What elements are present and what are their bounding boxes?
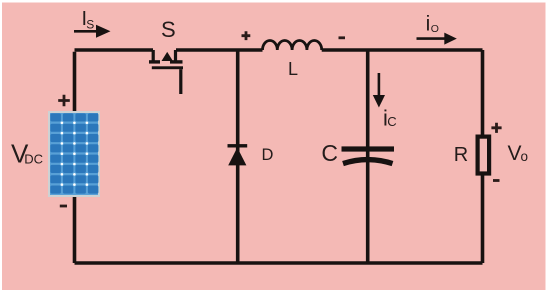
svg-text:O: O	[431, 23, 439, 35]
svg-text:C: C	[387, 114, 396, 129]
svg-text:C: C	[321, 140, 338, 166]
svg-text:DC: DC	[24, 152, 43, 167]
svg-text:L: L	[288, 59, 298, 79]
svg-text:S: S	[86, 18, 94, 32]
svg-text:o: o	[521, 149, 529, 164]
svg-text:S: S	[161, 17, 176, 42]
svg-text:i: i	[426, 13, 431, 36]
svg-text:D: D	[262, 146, 274, 164]
svg-text:V: V	[508, 142, 522, 165]
svg-text:R: R	[454, 144, 468, 166]
